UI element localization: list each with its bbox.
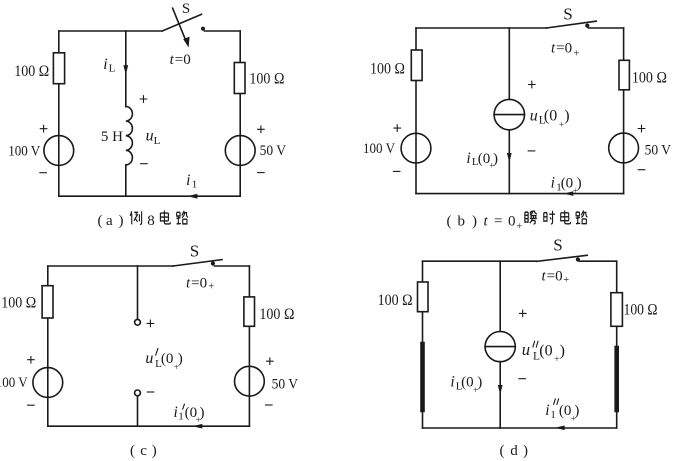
- label t=0 (a): [170, 52, 191, 68]
- label + of uL(0+) (b): [529, 81, 536, 88]
- switch contact dot (a): [201, 27, 205, 31]
- voltage source 50V circle (b): [609, 133, 639, 163]
- svg-text:): ): [472, 213, 477, 229]
- svg-text:u: u: [145, 350, 153, 367]
- svg-text:): ): [119, 213, 124, 229]
- label 100 V (a): [8, 143, 40, 159]
- svg-text:): ): [523, 443, 528, 459]
- label 50 V (c): [272, 376, 299, 392]
- svg-text:t=0: t=0: [170, 52, 191, 68]
- svg-text:t=0: t=0: [551, 40, 572, 56]
- label - at lower terminal (c): [147, 391, 154, 393]
- svg-text:i: i: [103, 56, 107, 73]
- svg-text:b: b: [458, 213, 466, 229]
- label 50 V (b): [645, 143, 672, 159]
- wire: (d) top wire left segment: [423, 260, 537, 262]
- svg-text:(: (: [447, 213, 452, 229]
- svg-text:t=0: t=0: [186, 275, 207, 291]
- svg-text:u: u: [530, 107, 538, 124]
- label + at upper terminal (c): [147, 320, 154, 327]
- label 100 ohm (d) right: [624, 301, 658, 318]
- wire: (c) bottom wire: [48, 425, 250, 427]
- arrow iL(0+) (b): [507, 153, 512, 163]
- resistor 100ohm (d) right: [611, 293, 623, 327]
- wire: (a) middle branch lower: [125, 165, 127, 196]
- svg-text:(: (: [500, 443, 505, 459]
- caption (a) hanzi LU: [176, 211, 188, 224]
- wire: (c) left branch: [47, 266, 49, 426]
- label i1 (a): [186, 172, 197, 191]
- svg-text:): ): [178, 351, 183, 367]
- wire: (c) top wire right segment: [215, 265, 250, 267]
- svg-text:a: a: [106, 213, 113, 229]
- wire: (b) top wire left segment: [416, 27, 546, 29]
- svg-text:1: 1: [178, 410, 184, 422]
- svg-text:): ): [493, 151, 498, 167]
- label uL''(0+) (d): [522, 340, 530, 359]
- svg-text:i: i: [545, 402, 549, 419]
- arrow iL (a): [123, 65, 128, 75]
- svg-text:50 V: 50 V: [272, 376, 299, 392]
- switch S blade (a): [162, 14, 201, 31]
- label - of 50V (b): [638, 169, 645, 171]
- label 50 V (a): [260, 143, 287, 159]
- current source iL(0+) circle (d): [485, 332, 515, 362]
- svg-text:c: c: [140, 443, 147, 459]
- wire: (a) bottom wire: [59, 195, 240, 197]
- caption (b) hanzi SHI: [544, 211, 555, 224]
- resistor 100ohm (d) left: [418, 282, 429, 312]
- label + of 50V (c): [267, 358, 274, 365]
- wire: (a) top wire right segment: [205, 30, 241, 32]
- switch contact dot (b): [585, 24, 589, 28]
- svg-text:S: S: [553, 235, 562, 254]
- svg-text:=: =: [494, 213, 502, 229]
- voltage source 50V circle (a): [225, 136, 255, 166]
- svg-text:i: i: [174, 404, 178, 421]
- wire: (d) right branch: [616, 261, 618, 428]
- svg-text:+: +: [563, 275, 569, 286]
- wire: (b) left branch: [415, 28, 417, 194]
- label 100 ohm (d) left: [378, 292, 413, 309]
- label 100 ohm (b) left: [370, 61, 405, 78]
- caption (c): [130, 443, 157, 459]
- wire: (d) middle branch lower: [499, 362, 501, 428]
- label t=0+ (c): [186, 275, 214, 292]
- label - of 100V (c): [28, 404, 35, 406]
- label + of uL (a): [140, 96, 147, 103]
- open terminal upper (c): [135, 319, 141, 325]
- label S (a): [182, 1, 190, 17]
- svg-text:): ): [477, 374, 482, 390]
- resistor 100ohm (b) left: [411, 50, 422, 81]
- svg-text:100 V: 100 V: [0, 375, 28, 391]
- label 100 ohm (a) left: [14, 63, 49, 80]
- arrow i1 (a): [187, 194, 197, 199]
- label 100 ohm (c) right: [259, 306, 294, 323]
- label i1''(0+) (d): [545, 402, 556, 421]
- wire: (a) top wire left segment: [59, 30, 163, 32]
- label t=0+ (b): [551, 40, 580, 59]
- label - of 100V (b): [393, 170, 400, 172]
- label i1(0+) (b): [551, 175, 582, 196]
- wire: (b) middle branch upper: [508, 28, 510, 99]
- wire: (d) top wire right segment: [580, 260, 617, 262]
- caption (b) hanzi SHUN: [525, 211, 537, 224]
- wire: (b) right branch: [623, 28, 625, 194]
- svg-text:100 Ω: 100 Ω: [624, 301, 658, 318]
- wire: (a) left branch: [58, 31, 60, 196]
- svg-text:): ): [560, 343, 565, 360]
- svg-text:+: +: [516, 221, 522, 232]
- wire: (c) top wire left segment: [48, 265, 173, 267]
- svg-text:): ): [200, 405, 205, 421]
- svg-text:100 Ω: 100 Ω: [249, 71, 284, 88]
- caption (a): [98, 213, 155, 229]
- svg-text:100 Ω: 100 Ω: [14, 63, 49, 80]
- svg-text:100 Ω: 100 Ω: [378, 292, 413, 309]
- switch S blade (d) closed: [537, 255, 588, 261]
- svg-text:i: i: [551, 175, 555, 192]
- label uL (a): [146, 127, 161, 147]
- caption (b): [447, 213, 523, 232]
- wire: (d) left branch: [422, 261, 424, 428]
- resistor 100ohm (a) left: [53, 53, 64, 84]
- resistor 100ohm (b) right: [619, 60, 629, 90]
- wire: (c) middle branch upper stub: [137, 266, 139, 319]
- voltage source 50V circle (c): [235, 366, 265, 396]
- label 100 ohm (a) right: [249, 71, 284, 88]
- svg-text:(: (: [98, 213, 103, 229]
- svg-text:0: 0: [508, 213, 516, 229]
- switch S closing arrow (a): [173, 8, 190, 47]
- svg-text:100 Ω: 100 Ω: [1, 295, 36, 312]
- svg-text:L: L: [154, 135, 161, 147]
- svg-text:(0: (0: [161, 351, 174, 367]
- voltage source 100V circle (b): [401, 133, 431, 163]
- label + of 100V (a): [40, 125, 47, 132]
- wire: (b) top wire right segment: [589, 27, 624, 29]
- wire: (d) bottom wire: [423, 427, 617, 429]
- label 100 V (c) clipped at left edge: [0, 375, 28, 391]
- wire: (a) right branch: [239, 31, 241, 196]
- resistor 100ohm (c) left: [42, 286, 53, 318]
- label - of uL (a): [141, 163, 148, 165]
- svg-text:5 H: 5 H: [101, 129, 123, 145]
- svg-text:i: i: [466, 150, 470, 167]
- label t=0+ (d): [542, 268, 570, 286]
- svg-text:8: 8: [147, 213, 155, 229]
- svg-text:L: L: [109, 62, 116, 74]
- switch contact dot (c): [211, 261, 215, 265]
- svg-text:50 V: 50 V: [645, 143, 672, 159]
- resistor 100ohm (a) right: [234, 63, 245, 94]
- switch contact dot (d): [576, 257, 580, 261]
- label i1'(0+) (c): [174, 404, 184, 423]
- label + of uL''(0+) (d): [519, 310, 526, 317]
- voltage source 100V circle (a): [44, 136, 74, 166]
- label uL'(0+) (c): [145, 350, 153, 367]
- label S (d): [553, 235, 562, 254]
- label S (c): [190, 242, 199, 261]
- label - of 100V (a): [40, 172, 47, 174]
- wire: (b) middle branch lower: [508, 130, 510, 194]
- arrow iL(0+) (d): [498, 385, 503, 394]
- inductor 5H (a): [126, 107, 133, 165]
- switch S blade (b) closed: [546, 21, 596, 28]
- svg-text:S: S: [182, 1, 190, 17]
- svg-text:100 V: 100 V: [8, 143, 40, 159]
- svg-text:): ): [574, 403, 579, 419]
- svg-text:100 V: 100 V: [363, 141, 395, 157]
- resistor 100ohm (c) right: [244, 297, 255, 326]
- label 100 ohm (b) right: [632, 69, 667, 86]
- svg-text:100 Ω: 100 Ω: [370, 61, 405, 78]
- svg-text:): ): [564, 107, 569, 124]
- label iL (a): [103, 56, 115, 75]
- shorted source thick bar (d) left: [420, 344, 425, 410]
- shorted source thick bar (d) right: [614, 348, 619, 410]
- svg-text:i: i: [450, 373, 454, 390]
- svg-text:t=0: t=0: [542, 268, 563, 284]
- svg-text:50 V: 50 V: [260, 143, 287, 159]
- label + of 100V (c): [28, 356, 35, 363]
- wire: (b) bottom wire: [416, 193, 624, 195]
- svg-text:100 Ω: 100 Ω: [632, 69, 667, 86]
- svg-text:+: +: [574, 49, 580, 60]
- svg-text:(0: (0: [544, 107, 557, 124]
- caption (d): [500, 443, 529, 459]
- label iL(0+) (b): [466, 150, 498, 170]
- label - of 50V (c): [266, 404, 273, 406]
- switch S blade (c) closed: [173, 260, 222, 266]
- wire: (a) middle branch upper: [125, 31, 127, 107]
- svg-text:): ): [577, 176, 582, 192]
- svg-text:): ): [152, 443, 157, 459]
- open terminal lower (c): [135, 390, 141, 396]
- arrow i1''(0+) (d): [555, 426, 565, 431]
- current source iL(0+) circle (b): [494, 99, 524, 129]
- svg-text:(0: (0: [461, 374, 474, 390]
- label 100 ohm (c) left: [1, 295, 36, 312]
- wire: (c) middle branch lower stub: [137, 396, 139, 426]
- svg-text:(0: (0: [539, 343, 552, 360]
- label 5 H (a): [101, 129, 123, 145]
- svg-text:u: u: [146, 127, 154, 144]
- label - of 50V (a): [258, 172, 265, 174]
- voltage source 100V circle (c): [33, 368, 63, 398]
- svg-text:u: u: [522, 340, 530, 359]
- caption (b) hanzi LU: [576, 211, 588, 224]
- svg-text:i: i: [186, 172, 190, 189]
- label + of 100V (b): [394, 125, 401, 132]
- svg-text:(0: (0: [559, 403, 572, 419]
- arrow i1(0+) (b): [564, 191, 574, 196]
- label - of uL(0+) (b): [528, 150, 535, 152]
- svg-text:(0: (0: [561, 176, 574, 192]
- wire: (d) middle branch upper: [499, 261, 501, 331]
- svg-text:(: (: [130, 443, 135, 459]
- svg-text:1: 1: [550, 409, 556, 421]
- svg-text:S: S: [563, 5, 572, 24]
- arrow i1'(0+) (c): [193, 424, 203, 429]
- label 100 V (b): [363, 141, 395, 157]
- wire: (c) right branch: [248, 266, 250, 426]
- caption (b) hanzi DIAN: [561, 210, 571, 223]
- label + of 50V (b): [638, 125, 645, 132]
- caption (a) hanzi DIAN: [160, 211, 170, 224]
- label S (b): [563, 5, 572, 24]
- svg-text:1: 1: [192, 179, 198, 191]
- svg-text:+: +: [208, 282, 214, 293]
- label iL(0+) (d): [450, 373, 482, 395]
- svg-text:S: S: [190, 242, 199, 261]
- label - of uL''(0+) (d): [519, 378, 526, 380]
- label uL(0+) (b): [530, 107, 570, 130]
- svg-text:d: d: [510, 443, 518, 459]
- caption (a) hanzi LI: [130, 211, 141, 224]
- svg-text:100 Ω: 100 Ω: [259, 306, 294, 323]
- label + of 50V (a): [258, 126, 265, 133]
